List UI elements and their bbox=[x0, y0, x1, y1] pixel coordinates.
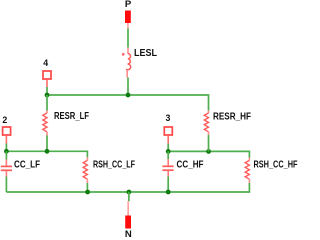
mid-left horizontal wire bbox=[6, 150, 87, 152]
node 4 pin stub bbox=[46, 80, 48, 87]
svg-text:P: P bbox=[125, 0, 132, 10]
inductor L1 pin top bbox=[127, 48, 129, 54]
junction at node4/top rail bbox=[45, 93, 50, 98]
bottom horizontal wire bbox=[6, 191, 249, 193]
svg-text:4: 4 bbox=[43, 58, 48, 68]
junction RESR_HF bottom bbox=[206, 149, 211, 154]
node 3 offpage square bbox=[164, 127, 172, 135]
capacitor CC_LF pin bottom bbox=[5, 171, 7, 177]
wire P to LESL bbox=[127, 29, 129, 48]
resistor RESR_LF pin top bbox=[46, 111, 48, 114]
capacitor CC_LF pin top bbox=[5, 160, 7, 166]
inductor phase dot bbox=[122, 53, 125, 56]
svg-text:2: 2 bbox=[2, 115, 7, 125]
resistor RSH_CC_LF pin top bbox=[86, 157, 88, 160]
node 3 pin stub bbox=[167, 135, 169, 143]
wire top rail to RESR_LF bbox=[46, 95, 48, 111]
top horizontal wire bbox=[47, 94, 209, 96]
svg-text:3: 3 bbox=[166, 113, 171, 123]
wire mid-left rail corner down to RSH_CC_LF bbox=[86, 151, 88, 158]
junction node3/CC_HF bbox=[166, 149, 171, 154]
resistor RESR_HF body bbox=[204, 113, 208, 132]
svg-text:RESR_LF: RESR_LF bbox=[54, 111, 89, 122]
wire CC_LF to bottom rail bbox=[5, 177, 7, 193]
resistor RSH_CC_HF pin top bbox=[248, 158, 250, 161]
resistor RESR_LF body bbox=[43, 113, 47, 132]
wire mid-right rail corner down to RSH_CC_HF bbox=[248, 151, 250, 158]
inductor LESL body bbox=[127, 54, 131, 71]
wire top rail corner down to RESR_HF bbox=[208, 94, 210, 111]
resistor RSH_CC_HF pin bottom bbox=[248, 179, 250, 183]
port N symbol bbox=[125, 216, 131, 229]
resistor RESR_LF pin bottom bbox=[46, 132, 48, 136]
wire bottom rail to port N bbox=[128, 192, 130, 201]
resistor RSH_CC_LF pin bottom bbox=[86, 179, 88, 183]
wire LESL to top rail bbox=[127, 78, 129, 96]
wire mid-right rail to CC_HF bbox=[167, 151, 169, 159]
junction RSH_CC_LF bottom bbox=[85, 190, 90, 195]
capacitor CC_HF top plate bbox=[162, 165, 173, 167]
wire node4 to top rail bbox=[46, 87, 48, 95]
resistor RESR_HF pin bottom bbox=[208, 132, 210, 135]
capacitor CC_LF bottom plate bbox=[1, 169, 12, 171]
mid-right horizontal wire bbox=[168, 150, 249, 152]
pin stub above port N bbox=[127, 201, 129, 216]
node 2 offpage square bbox=[3, 127, 11, 135]
wire CC_HF to bottom rail bbox=[167, 176, 169, 192]
node 2 pin stub bbox=[5, 135, 7, 143]
capacitor CC_HF pin bottom bbox=[167, 171, 169, 177]
resistor RSH_CC_LF body bbox=[83, 160, 87, 179]
wire RESR_HF to mid-right rail bbox=[208, 135, 210, 151]
svg-text:CC_LF: CC_LF bbox=[14, 160, 40, 171]
svg-text:LESL: LESL bbox=[134, 48, 157, 59]
wire node2 to mid-left rail bbox=[5, 144, 7, 152]
capacitor CC_HF pin top bbox=[167, 159, 169, 165]
junction at LESL/top rail bbox=[126, 93, 131, 98]
junction CC_HF bottom bbox=[166, 190, 171, 195]
junction N tap bbox=[126, 190, 131, 195]
wire RSH_CC_LF to bottom rail bbox=[86, 183, 88, 192]
svg-text:RSH_CC_LF: RSH_CC_LF bbox=[93, 160, 135, 171]
pin stub below port P bbox=[127, 23, 129, 29]
svg-text:CC_HF: CC_HF bbox=[177, 160, 204, 171]
inductor L1 pin bottom bbox=[126, 70, 128, 78]
wire RESR_LF to mid-left rail bbox=[46, 136, 48, 152]
svg-text:RESR_HF: RESR_HF bbox=[213, 112, 251, 123]
resistor RESR_HF pin top bbox=[208, 111, 210, 113]
wire RSH_CC_HF to bottom rail bbox=[248, 183, 250, 193]
svg-text:N: N bbox=[125, 229, 132, 237]
wire mid-left rail to CC_LF bbox=[5, 151, 7, 159]
resistor RSH_CC_HF body bbox=[245, 160, 249, 179]
capacitor CC_HF bottom plate bbox=[162, 169, 173, 171]
capacitor CC_LF top plate bbox=[1, 165, 12, 167]
svg-text:RSH_CC_HF: RSH_CC_HF bbox=[254, 160, 298, 171]
node 4 offpage square bbox=[43, 71, 51, 79]
port P symbol bbox=[125, 11, 131, 24]
junction node2/CC_LF bbox=[4, 149, 9, 154]
junction RESR_LF bottom bbox=[45, 149, 50, 154]
wire node3 to mid-right rail bbox=[167, 144, 169, 152]
